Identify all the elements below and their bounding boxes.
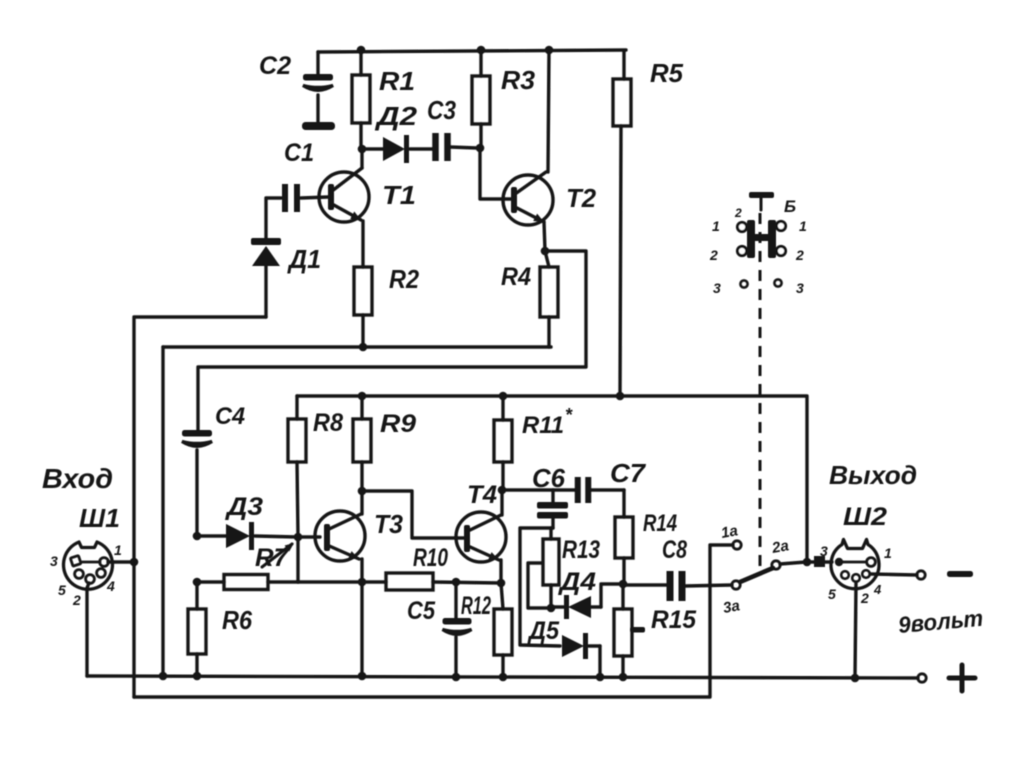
capacitor C5 <box>454 582 457 618</box>
wire top supply rail <box>318 50 626 52</box>
wire T1 collector <box>360 150 363 168</box>
svg-text:1: 1 <box>884 545 892 561</box>
svg-text:R4: R4 <box>501 263 531 291</box>
diode D1 <box>264 198 267 240</box>
svg-text:*: * <box>565 405 573 425</box>
svg-text:R12: R12 <box>461 592 491 620</box>
svg-text:R15: R15 <box>651 606 697 634</box>
wire feedback T2 emitter to C4 rail <box>198 251 586 430</box>
resistor R9 <box>360 396 363 419</box>
resistor R6 <box>195 582 198 609</box>
wire 2a to supply drop <box>780 562 806 564</box>
wire emitter row <box>298 580 386 583</box>
svg-text:R9: R9 <box>380 410 416 438</box>
wire R7 riser <box>296 537 299 582</box>
wire input feedback route <box>134 317 266 697</box>
junction R9 top <box>358 392 367 401</box>
node R3 / C3 / T2 base <box>476 144 485 153</box>
wire R8 top lead <box>295 396 298 419</box>
resistor R7 <box>197 580 224 583</box>
wire T4 emitter drop <box>499 560 502 583</box>
junction R2 bottom <box>359 343 368 352</box>
resistor R10 <box>386 573 433 590</box>
svg-text:Выход: Выход <box>829 460 917 490</box>
svg-text:2: 2 <box>795 247 804 263</box>
wire Sh2 pin2 drop <box>855 582 856 678</box>
junction C4/D3 node <box>193 532 202 541</box>
junction T4 collector / R11 <box>498 486 507 495</box>
svg-text:R6: R6 <box>222 605 252 635</box>
svg-text:Ш2: Ш2 <box>843 503 887 531</box>
wire R13 tap U <box>528 563 549 608</box>
wire Sh2 pin4 to minus terminal <box>870 574 917 575</box>
diode D3 <box>197 534 226 537</box>
junction R6 bottom <box>193 672 202 681</box>
junction T3 emitter row <box>358 578 367 587</box>
svg-text:R3: R3 <box>501 65 536 95</box>
svg-text:Д1: Д1 <box>287 244 321 274</box>
resistor R13 <box>549 528 552 539</box>
junction R12 bottom <box>499 673 508 682</box>
switch B contacts <box>747 220 755 258</box>
wire T3 base <box>298 535 320 538</box>
svg-text:2: 2 <box>860 590 869 606</box>
wire lower return rail <box>134 545 733 697</box>
wire to Sh2 pin3 <box>807 560 815 563</box>
svg-text:1: 1 <box>712 218 720 234</box>
svg-text:C8: C8 <box>662 536 687 564</box>
junction input line <box>130 558 139 567</box>
junction C5 bottom <box>452 673 461 682</box>
connector Sh2 <box>831 540 879 589</box>
resistor R1 <box>359 50 362 75</box>
junction R3 top <box>477 46 486 55</box>
junction T3 emitter bottom <box>358 672 367 681</box>
wire Sh1 pin2 drop <box>87 583 89 676</box>
resistor R2 <box>354 267 372 315</box>
svg-text:2: 2 <box>72 592 81 608</box>
junction R1 top <box>357 46 366 55</box>
svg-text:C3: C3 <box>427 95 456 125</box>
capacitor C1 <box>267 196 281 199</box>
terminal plus <box>918 674 926 682</box>
wire T3 emitter drop <box>360 559 363 676</box>
svg-text:Д4: Д4 <box>558 568 596 596</box>
svg-text:C7: C7 <box>610 458 647 488</box>
capacitor C2 <box>316 52 319 75</box>
svg-text:Б: Б <box>784 197 796 216</box>
switch B top bar <box>749 192 774 198</box>
svg-text:2: 2 <box>709 247 718 263</box>
resistor R8 <box>288 419 306 462</box>
junction R13 bottom / D4 <box>547 604 556 613</box>
junction R14/R15/D4/C8 <box>619 580 628 589</box>
svg-text:T3: T3 <box>374 509 404 539</box>
wire Sh1 pin1 to input line <box>108 560 134 563</box>
svg-text:Д3: Д3 <box>225 493 263 521</box>
transistor T4 <box>456 512 506 562</box>
svg-text:1a: 1a <box>720 522 739 542</box>
junction 2a node <box>803 558 812 567</box>
capacitor C8 <box>623 583 667 586</box>
diode D2 <box>363 147 383 150</box>
svg-text:C5: C5 <box>407 597 436 625</box>
connector Sh1 <box>64 542 113 589</box>
svg-text:T2: T2 <box>566 183 597 213</box>
wire lower supply rail <box>297 396 807 563</box>
wire D4 to R14/R15 node <box>601 584 622 607</box>
transistor T1 <box>319 172 369 222</box>
svg-text:T4: T4 <box>467 481 497 509</box>
svg-text:3: 3 <box>796 280 804 296</box>
svg-text:R14: R14 <box>643 510 677 537</box>
contact 3a <box>732 581 740 589</box>
switch lever <box>740 568 773 582</box>
resistor R4 <box>545 251 549 267</box>
svg-text:3: 3 <box>820 543 828 559</box>
resistor R5 <box>622 51 625 79</box>
svg-text:2a: 2a <box>770 537 790 557</box>
diode D4 <box>551 605 566 608</box>
wire T1 emitter to R2 <box>361 221 364 267</box>
svg-text:1: 1 <box>799 218 807 234</box>
wire mid rail A (R2/R4) <box>163 345 551 348</box>
svg-text:4: 4 <box>873 582 882 597</box>
svg-text:1: 1 <box>114 542 122 558</box>
junction x163 bottom <box>159 672 168 681</box>
wire collector node row <box>502 488 575 491</box>
resistor R12 <box>501 583 503 609</box>
wire left drop from rail A <box>161 347 164 676</box>
svg-text:3a: 3a <box>722 597 741 617</box>
junction C5 top <box>452 578 461 587</box>
junction D3 cathode / T3 base <box>294 533 303 542</box>
label R7 arrow <box>262 544 292 567</box>
svg-text:3: 3 <box>50 553 58 569</box>
wire D5 cathode drop <box>598 646 601 677</box>
node T1 collector / R1 / D2 <box>358 145 367 154</box>
wire T2 emitter node <box>544 222 545 251</box>
terminal minus <box>917 571 925 579</box>
junction T4 emitter / R12 <box>497 579 506 588</box>
wire T2 collector to rail <box>548 50 549 172</box>
capacitor C3 <box>432 133 439 161</box>
svg-text:Д5: Д5 <box>527 617 560 645</box>
wire bottom plus rail <box>87 676 918 678</box>
capacitor C4 <box>182 430 212 437</box>
junction D5 bottom <box>596 673 605 682</box>
svg-text:5: 5 <box>828 586 836 602</box>
svg-text:R13: R13 <box>562 536 600 564</box>
switch B dashed link <box>759 213 762 575</box>
diode D5 <box>562 635 584 657</box>
junction R11 top <box>499 392 508 401</box>
svg-text:R1: R1 <box>379 66 415 96</box>
svg-text:Ш1: Ш1 <box>79 503 120 533</box>
svg-text:T1: T1 <box>382 180 416 210</box>
junction Sh2 pin2 rail <box>851 674 860 683</box>
capacitor C6 <box>551 490 554 502</box>
svg-text:4: 4 <box>106 578 115 594</box>
transistor T2 <box>503 175 553 225</box>
resistor R3 <box>479 50 482 76</box>
contact 1a <box>733 541 741 549</box>
wire R5 bottom lead <box>620 126 621 396</box>
junction R15 bottom <box>619 673 628 682</box>
wire T3 collector <box>360 491 363 514</box>
svg-text:Вход: Вход <box>42 463 113 494</box>
junction T2 emitter <box>541 247 550 256</box>
svg-text:2: 2 <box>734 206 742 220</box>
svg-text:R11: R11 <box>522 412 564 439</box>
wire T3-T4 coupling <box>362 491 464 538</box>
wire bypass U around C6 <box>520 528 560 646</box>
junction T2 collector top <box>545 46 554 55</box>
resistor R11 <box>501 396 504 420</box>
capacitor C7 <box>575 477 581 503</box>
resistor R14 <box>622 490 625 517</box>
svg-text:R2: R2 <box>389 264 419 294</box>
svg-text:C4: C4 <box>215 403 245 430</box>
svg-text:C6: C6 <box>532 463 566 493</box>
wire T2 base drop <box>480 148 511 199</box>
svg-text:R5: R5 <box>650 58 684 88</box>
resistor R15 <box>621 584 624 609</box>
svg-text:C2: C2 <box>259 52 291 80</box>
junction T3 collector / R9 <box>358 487 367 496</box>
svg-text:C1: C1 <box>284 139 314 167</box>
svg-text:R10: R10 <box>413 544 448 572</box>
wire T4 collector <box>500 490 503 515</box>
svg-text:R8: R8 <box>313 409 343 437</box>
contact 2a <box>772 561 780 569</box>
svg-text:3: 3 <box>713 280 721 296</box>
svg-text:Д2: Д2 <box>375 101 418 131</box>
junction R5 bottom <box>616 392 625 401</box>
transistor T3 <box>315 511 365 561</box>
junction R7 left <box>193 578 202 587</box>
svg-text:5: 5 <box>58 582 66 598</box>
